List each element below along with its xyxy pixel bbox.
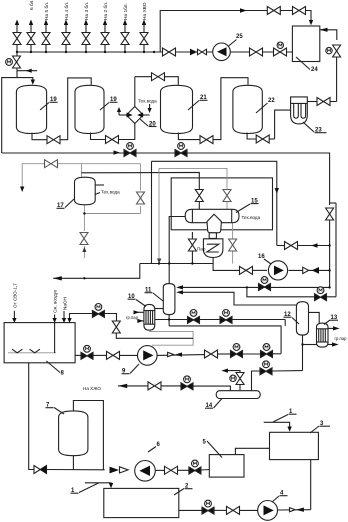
svg-text:От СВО-1,7: От СВО-1,7 (12, 283, 17, 308)
svg-text:На ХЖО: На ХЖО (83, 386, 101, 391)
svg-text:На 1бл.: На 1бл. (123, 3, 129, 20)
svg-text:24: 24 (311, 67, 318, 73)
svg-text:гр.пар: гр.пар (126, 315, 139, 320)
svg-text:На ХВО: На ХВО (142, 2, 148, 20)
svg-text:NaOH: NaOH (62, 297, 67, 310)
svg-text:Тех.вода: Тех.вода (101, 190, 120, 195)
svg-text:25: 25 (236, 34, 243, 40)
svg-text:На 4 бл.: На 4 бл. (64, 2, 70, 20)
svg-text:22: 22 (268, 98, 275, 104)
svg-text:На 3 бл.: На 3 бл. (84, 2, 90, 20)
svg-text:6 бл.: 6 бл. (29, 0, 35, 10)
svg-text:Тех.вода: Тех.вода (242, 215, 261, 220)
svg-text:Сж. воздух: Сж. воздух (53, 289, 58, 313)
svg-text:Тех.вода: Тех.вода (138, 99, 157, 104)
svg-text:На 2 бл.: На 2 бл. (103, 2, 109, 20)
svg-text:На 5 бл.: На 5 бл. (44, 2, 50, 20)
svg-text:гр.пар: гр.пар (335, 336, 348, 341)
svg-text:Пар: Пар (197, 247, 206, 252)
